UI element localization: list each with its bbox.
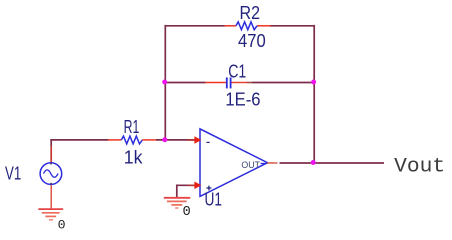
wire: top feedback branch (R2 branch) horizontal xyxy=(165,25,314,27)
junction node: C1 branch right xyxy=(311,80,316,85)
wire: main input horizontal (V1 to R1 to op-amp minus) xyxy=(50,139,195,141)
svg-text:Vout: Vout xyxy=(394,155,445,178)
wire: middle C1 branch horizontal xyxy=(165,82,314,84)
pin: red lead into minus input xyxy=(187,139,196,141)
minus sign xyxy=(207,141,210,143)
sine wave inside V1 xyxy=(44,170,59,177)
svg-text:OUT: OUT xyxy=(241,160,260,170)
svg-text:R1: R1 xyxy=(124,117,140,137)
ground (0) under V1 xyxy=(38,209,63,220)
pin: V1 top lead xyxy=(50,146,52,163)
svg-text:1k: 1k xyxy=(124,147,144,167)
wire: output to junction and Vout xyxy=(280,162,385,164)
pin: red lead into plus input xyxy=(188,184,196,186)
resistor R1 xyxy=(108,136,156,144)
op-amp U1 xyxy=(200,129,268,197)
svg-text:C1: C1 xyxy=(228,62,246,82)
wire: V1 vertical to input corner xyxy=(50,140,52,163)
svg-text:0: 0 xyxy=(58,217,66,232)
pin arrow into plus input xyxy=(194,182,201,190)
wire: right vertical feedback wire xyxy=(313,25,315,163)
wire: left vertical feedback wire xyxy=(164,25,166,140)
junction node: output node xyxy=(311,160,316,165)
svg-text:V1: V1 xyxy=(5,163,21,183)
svg-text:0: 0 xyxy=(183,205,191,220)
pin arrow into minus input xyxy=(194,136,201,144)
pin dots on V1 xyxy=(50,163,52,165)
pin: op-amp output lead xyxy=(267,162,277,164)
junction node: R1 / feedback / op-amp minus xyxy=(162,137,167,142)
pin: V1 bottom lead xyxy=(50,184,52,209)
pin OUT stub xyxy=(261,163,267,165)
svg-text:470: 470 xyxy=(238,31,266,51)
svg-text:1E-6: 1E-6 xyxy=(225,89,260,109)
wire: op-amp plus input to ground stub xyxy=(177,185,195,197)
capacitor C1 xyxy=(205,77,252,88)
svg-text:R2: R2 xyxy=(240,3,261,23)
ground (0) at op-amp plus input xyxy=(164,198,191,208)
source V1 xyxy=(40,146,62,209)
plus sign xyxy=(206,186,211,191)
svg-text:U1: U1 xyxy=(205,189,223,209)
resistor R2 xyxy=(225,22,271,30)
junction node: C1 branch left xyxy=(162,80,167,85)
